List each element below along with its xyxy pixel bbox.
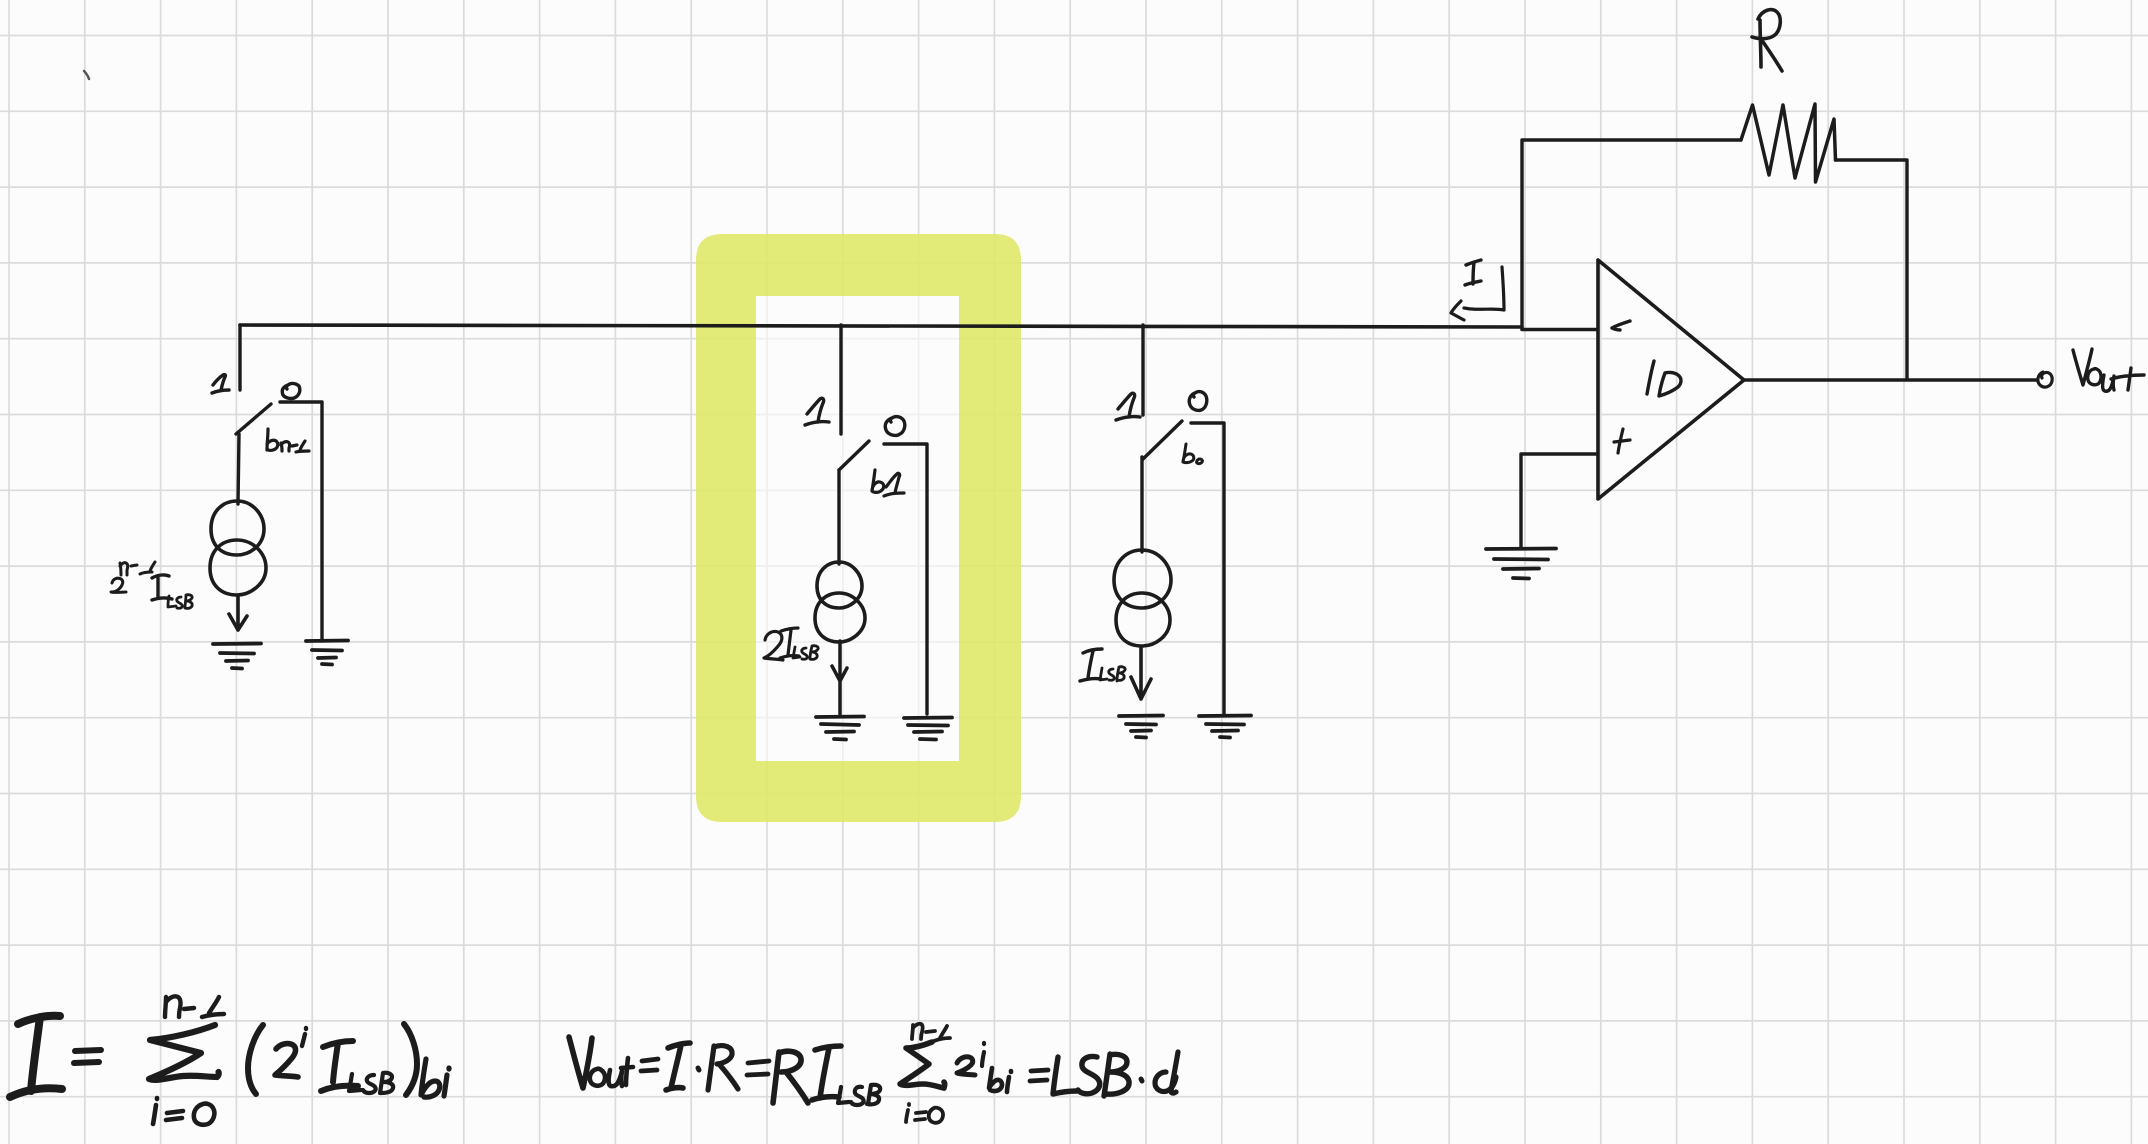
label: b1 switch name [872,470,904,496]
label: R [1752,10,1782,71]
label: terminal 0 of switch b0 [1189,392,1207,411]
wire: resistor to output node [1836,160,1908,379]
label: value 2^n-1 I_LSB [111,562,155,592]
stray pen mark top-left [84,71,89,79]
label: terminal 1 of switch b0 [1116,393,1140,420]
wire: switch pole down to current source 2^n-1 I_LSB [238,434,239,504]
ground: below current source I2 [816,717,864,740]
label: Vout [2073,349,2144,391]
wire: branch b1 stub from bus to switch terminal 1 [839,325,842,434]
current source I2 = 2 I_LSB [815,562,865,642]
wire: switch b_n-1 terminal 0 to ground [280,402,322,641]
ground: b0 dump branch [1199,716,1251,738]
label: op-amp inverting input minus [1612,321,1630,330]
ground: below current source I1 [213,644,261,669]
wire: non-inverting input to ground [1521,454,1597,548]
label: value I_LSB [1080,649,1102,681]
label: value 2 I_LSB [764,628,799,660]
ground: op-amp non-inverting input [1486,549,1556,579]
arrow: current direction out of source I2 [832,641,847,714]
current source I3 = I_LSB [1114,550,1171,646]
wire: branch b0 stub from bus to switch terminal 1 [1141,325,1144,415]
wire: switch b1 terminal 0 to ground [884,444,927,714]
label: op-amp non-inverting input plus [1614,429,1630,453]
label: terminal 1 of switch b1 [805,398,829,425]
current source I1 = 2^n-1 I_LSB (overlapping circles) [210,501,266,595]
ground: b1 dump branch [904,718,952,740]
arrow: current direction out of source I1 [229,596,247,630]
resistor R (feedback) [1741,104,1836,182]
arrow: current direction out of source I3 [1131,647,1151,699]
formula: I = sum_(i=0)^(n-1) (2^i I_LSB) b_i [10,1016,62,1097]
label: b_n-1 switch name [267,429,309,452]
wire: switch pole down to current source I_LSB [1140,457,1143,552]
label: terminal 0 of switch b_n-1 [282,383,300,398]
label: b0 switch name [1183,444,1202,464]
switch S1 arm [839,441,869,470]
wire: summing bus from bit switches to op-amp inverting input [240,325,1597,330]
wire: switch pole down to current source 2 I_LSB [837,470,840,564]
switch S0 arm [1143,421,1182,459]
highlight: yellow marker box around b1 branch [756,296,959,761]
node: Vout open terminal [2038,372,2052,387]
ground: below current source I3 [1119,716,1163,738]
ground: b_n-1 dump branch [306,641,348,665]
label: terminal 1 of switch b_n-1 [212,375,229,393]
switch S_n-1 arm (pole thrown toward 1) [236,404,271,434]
formula: Vout = I R = R I_LSB sum 2^i b_i = LSB d [569,1037,592,1088]
label: terminal 0 of switch b1 [885,417,905,436]
op-amp U1 triangle [1598,260,1744,499]
wire: switch b0 terminal 0 to ground [1191,423,1224,714]
label: 10 written inside op-amp [1647,361,1681,396]
label: current I into summing node with hook arrow [1465,260,1481,285]
wire: feedback from inverting input node up and across [1522,140,1741,327]
wire: branch b_n-1 stub from bus to switch terminal 1 [238,325,241,390]
wire: op-amp output to Vout terminal [1744,378,2037,381]
